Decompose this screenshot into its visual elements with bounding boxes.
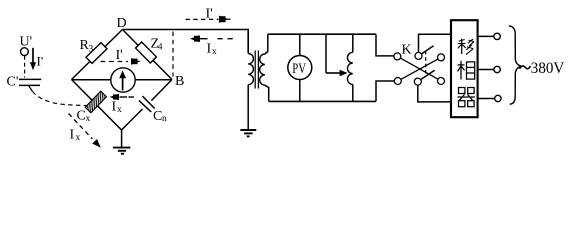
wire secondary bottom jog <box>265 85 269 101</box>
svg-text:x: x <box>76 133 81 143</box>
svg-text:I': I' <box>206 7 213 22</box>
svg-text:K: K <box>402 43 412 58</box>
switch K contacts <box>394 53 401 60</box>
ground bridge bottom <box>121 130 123 148</box>
wire wiper drop <box>325 34 327 73</box>
wire PV bottom stub <box>299 79 301 101</box>
svg-text:x: x <box>212 47 217 57</box>
wire PV top stub <box>299 34 301 55</box>
wire detector branch L-B <box>72 79 173 81</box>
wire box output 1 <box>478 35 494 37</box>
svg-text:PV: PV <box>292 61 306 77</box>
wire to switch bottom <box>376 81 394 101</box>
character yi (move) <box>458 39 474 55</box>
svg-text:I: I <box>112 100 117 115</box>
svg-text:380V: 380V <box>531 60 565 77</box>
wire box output 3 <box>478 98 495 100</box>
ground transformer <box>240 129 256 131</box>
resistor R3 <box>86 43 107 64</box>
terminal 3 <box>495 95 501 101</box>
current I' arrow top <box>186 18 219 20</box>
svg-text:I': I' <box>116 48 123 63</box>
transformer primary coil <box>248 54 253 85</box>
wire D to transformer <box>123 29 249 31</box>
transformer secondary coil <box>260 54 265 85</box>
terminal 1 <box>494 33 500 39</box>
wire bridge edge L-D <box>72 30 123 80</box>
svg-text:C': C' <box>7 75 19 90</box>
wire switch to box top <box>419 34 452 52</box>
capacitor Cn plates <box>139 101 151 112</box>
svg-text:x: x <box>86 114 91 124</box>
wire box output 2 <box>478 69 494 71</box>
character qi (device) <box>458 88 476 107</box>
switch K blade top <box>422 46 434 54</box>
switch K blade bottom <box>421 70 434 79</box>
wire to switch top <box>376 34 394 56</box>
current Ix arrow inside bridge <box>110 94 120 100</box>
svg-text:C: C <box>77 109 86 124</box>
galvanometer arrow <box>122 74 124 91</box>
variac wiper arrow <box>326 72 341 74</box>
svg-text:C: C <box>153 109 162 124</box>
character xiang (phase) <box>458 61 475 80</box>
wire bridge edge D-B <box>123 30 173 80</box>
galvanometer detector circle <box>111 68 135 92</box>
svg-text:I: I <box>207 42 212 57</box>
variac coil <box>347 52 352 84</box>
svg-text:I': I' <box>37 54 44 69</box>
svg-text:B: B <box>175 74 184 89</box>
wire variac bottom <box>352 84 354 101</box>
wire bottom rail <box>269 100 376 102</box>
wire dashed to node B <box>172 32 174 77</box>
switch K linkage dashed <box>425 51 427 76</box>
brace <box>509 26 521 105</box>
wire variac top <box>352 34 354 52</box>
wire bridge edge Cn-B <box>151 80 172 101</box>
svg-text:I: I <box>70 128 75 143</box>
current Ix arrow top <box>190 35 200 42</box>
current I' down arrow <box>32 48 34 63</box>
wire down to primary <box>247 29 249 54</box>
wire bridge edge L-bottom <box>72 80 122 131</box>
wire from C' solid stub <box>29 86 33 92</box>
label AC tilde <box>520 66 531 69</box>
svg-text:3: 3 <box>89 45 94 55</box>
phase shifter box <box>451 20 478 117</box>
current I' arrow inside bridge <box>101 61 129 63</box>
svg-text:n: n <box>162 114 167 124</box>
transformer core <box>254 51 256 89</box>
terminal U' circle <box>21 48 29 56</box>
capacitor C' plates <box>19 78 41 80</box>
voltmeter PV <box>288 56 312 80</box>
current Ix dashed arrow lower left <box>69 114 93 140</box>
svg-text:4: 4 <box>158 43 163 53</box>
wire dashed U' to C' <box>24 56 26 78</box>
wire bridge edge bottom-Cn <box>122 109 143 130</box>
impedance Z4 <box>136 42 157 63</box>
wire secondary top jog <box>265 34 268 54</box>
svg-text:x: x <box>117 105 122 115</box>
wire dashed C' to Cx <box>33 92 88 106</box>
switch K crossover wires <box>401 58 438 79</box>
wire primary to ground <box>247 85 249 130</box>
wire top rail <box>268 33 376 35</box>
wire switch to box bottom <box>418 85 451 102</box>
terminal 2 <box>494 66 500 72</box>
